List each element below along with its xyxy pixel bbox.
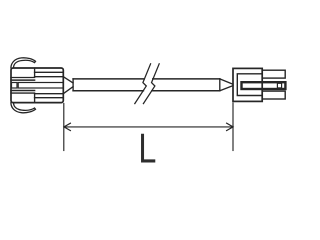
dimension extension line right (232, 103, 234, 151)
cable break symbol left stroke (135, 64, 151, 104)
right connector top tab (262, 70, 285, 78)
left connector top-left compartment (11, 68, 35, 78)
right connector terminal end square (277, 83, 281, 88)
right connector terminal bar outer (242, 82, 286, 89)
right connector inner housing (237, 74, 262, 96)
right connector neck (220, 79, 233, 91)
cable left end cap (72, 79, 74, 91)
dimension arrowhead right (227, 123, 233, 130)
right connector bottom tab (262, 91, 285, 99)
left connector key square (12, 83, 18, 89)
dimension extension line left (63, 104, 65, 151)
left connector bottom-left compartment (11, 93, 35, 103)
wire top line (73, 78, 220, 80)
left connector top latch ear (11, 58, 36, 68)
left connector taper to cable (63, 77, 73, 94)
left connector middle band lines (11, 80, 35, 90)
left connector P1 body (11, 68, 63, 103)
right connector P2 body (233, 68, 262, 101)
cable break symbol right stroke (143, 64, 159, 104)
svg-text:L: L (138, 124, 156, 171)
cable right end cap (219, 79, 221, 91)
dimension line (64, 126, 233, 128)
left connector bottom latch ear (11, 103, 36, 113)
left connector bottom slot lines (35, 94, 64, 98)
dimension arrowhead left (64, 123, 70, 130)
left connector top slot lines (35, 72, 64, 76)
left connector middle slot (18, 83, 63, 89)
wire bottom line (73, 90, 220, 92)
